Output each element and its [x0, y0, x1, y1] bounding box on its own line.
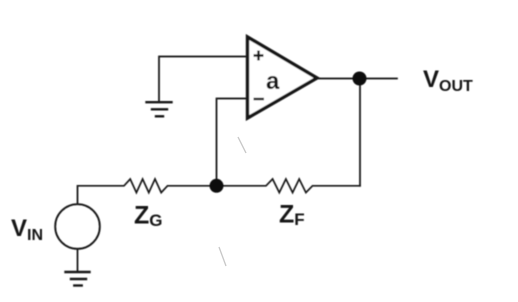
svg-text:a: a [266, 68, 280, 95]
